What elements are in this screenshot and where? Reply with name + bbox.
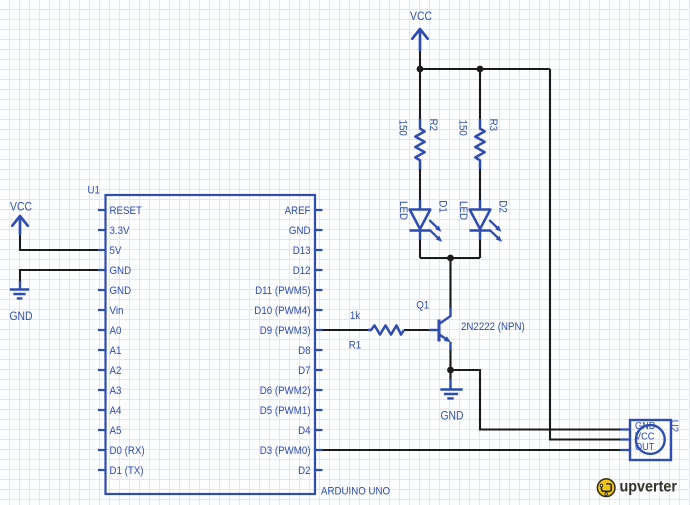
power net VCC (left)	[12, 216, 27, 234]
svg-text:VCC: VCC	[10, 202, 32, 214]
svg-text:GND: GND	[110, 265, 132, 277]
wire node to GND symbol	[449, 370, 451, 379]
wire rail to R2	[419, 69, 421, 120]
svg-text:150: 150	[457, 120, 469, 136]
svg-text:R2: R2	[427, 119, 439, 131]
junction emitter node	[447, 367, 454, 374]
svg-text:U1: U1	[88, 185, 100, 197]
svg-text:D12: D12	[293, 265, 311, 277]
svg-text:Vin: Vin	[110, 305, 124, 317]
wire R1 to Q1 base	[404, 329, 429, 331]
junction rail-R2	[417, 66, 424, 73]
svg-text:R3: R3	[487, 119, 499, 131]
svg-text:D6 (PWM2): D6 (PWM2)	[260, 385, 311, 397]
resistor R3 150	[457, 119, 500, 169]
svg-text:upverter: upverter	[620, 479, 678, 496]
svg-text:D2: D2	[298, 465, 310, 477]
wire D3 to U2 OUT pin	[322, 449, 621, 451]
transistor Q1 2N2222 (NPN)	[416, 300, 525, 351]
svg-text:D10 (PWM4): D10 (PWM4)	[254, 305, 310, 317]
refdes U2	[668, 420, 680, 432]
svg-text:A3: A3	[110, 385, 122, 397]
svg-text:D3 (PWM0): D3 (PWM0)	[260, 445, 311, 457]
svg-text:1k: 1k	[350, 310, 361, 322]
svg-text:5V: 5V	[110, 245, 123, 257]
IC U1 ARDUINO UNO	[88, 185, 391, 498]
svg-text:D0 (RX): D0 (RX)	[110, 445, 145, 457]
wire D2 to join node	[479, 240, 481, 258]
resistor R1 1k	[349, 310, 404, 352]
svg-text:VCC: VCC	[410, 11, 432, 23]
wire VCC-top down	[419, 48, 421, 69]
svg-text:D13: D13	[293, 245, 311, 257]
svg-text:2N2222 (NPN): 2N2222 (NPN)	[461, 321, 525, 333]
wire node to U2 GND pin	[451, 370, 622, 430]
speaker U2	[620, 420, 680, 460]
wire rail to R3	[479, 69, 481, 120]
wire GND-left from GND pin	[20, 270, 105, 281]
svg-text:D1: D1	[437, 200, 449, 212]
svg-text:3.3V: 3.3V	[110, 225, 131, 237]
wire join to Q1 collector	[449, 258, 451, 309]
svg-text:D5 (PWM1): D5 (PWM1)	[260, 405, 311, 417]
wire Q1 emitter down to node	[449, 350, 451, 370]
wire D1 to join node	[419, 240, 421, 258]
svg-text:D8: D8	[298, 345, 310, 357]
junction LED join	[447, 255, 454, 262]
wire top rail	[420, 68, 550, 70]
wire D9 to R1	[322, 329, 368, 331]
power net VCC (top)	[412, 29, 427, 50]
svg-text:A4: A4	[110, 405, 122, 417]
svg-text:GND: GND	[10, 311, 33, 323]
svg-text:Q1: Q1	[416, 300, 429, 312]
LED D1	[397, 200, 449, 242]
svg-text:D7: D7	[298, 365, 310, 377]
svg-text:RESET: RESET	[110, 205, 143, 217]
svg-text:ARDUINO UNO: ARDUINO UNO	[321, 486, 390, 498]
svg-text:D9 (PWM3): D9 (PWM3)	[260, 325, 311, 337]
LED D2	[457, 200, 509, 242]
svg-text:A5: A5	[110, 425, 122, 437]
wire LED join horizontal	[420, 257, 480, 259]
wire VCC-left to 5V pin	[20, 233, 105, 250]
upverter logo icon	[597, 479, 615, 497]
svg-text:U2: U2	[668, 420, 680, 432]
svg-text:A2: A2	[110, 365, 122, 377]
svg-text:AREF: AREF	[285, 205, 311, 217]
svg-text:GND: GND	[289, 225, 311, 237]
svg-text:A1: A1	[110, 345, 122, 357]
ground symbol (Q1 emitter)	[440, 379, 462, 398]
wire R3 to LED D2	[479, 163, 481, 201]
svg-text:GND: GND	[110, 285, 132, 297]
svg-text:A0: A0	[110, 325, 122, 337]
svg-text:GND: GND	[441, 411, 464, 423]
ground symbol (left)	[10, 281, 29, 298]
svg-text:OUT: OUT	[635, 442, 654, 453]
svg-text:150: 150	[397, 120, 409, 136]
svg-text:D1 (TX): D1 (TX)	[110, 465, 144, 477]
svg-text:D11 (PWM5): D11 (PWM5)	[255, 285, 310, 297]
svg-text:D4: D4	[298, 425, 310, 437]
svg-text:D2: D2	[497, 200, 509, 212]
resistor R2 150	[397, 119, 440, 169]
wire R2 to LED D1	[419, 163, 421, 201]
junction rail-R3	[477, 66, 484, 73]
svg-text:LED: LED	[397, 201, 409, 220]
svg-text:LED: LED	[457, 201, 469, 220]
svg-text:R1: R1	[349, 340, 361, 352]
wire VCC rail to U2 VCC pin	[550, 69, 621, 440]
